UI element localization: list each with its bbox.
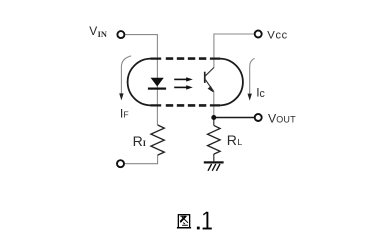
- resistor R1 zigzag: [151, 125, 164, 155]
- LED D1 triangle (anode): [151, 78, 164, 87]
- wire node to RL top: [213, 118, 215, 126]
- ground symbol bar: [204, 161, 224, 163]
- svg-text:RL: RL: [227, 132, 243, 148]
- caption dot: [197, 227, 200, 230]
- 图 inner winter component strokes: [180, 216, 188, 225]
- terminal VOUT circle: [255, 114, 262, 121]
- caption digit 1: [206, 212, 208, 228]
- optocoupler package outline bottom dashed edge: [166, 104, 207, 107]
- current arrow IF: [119, 56, 131, 101]
- 图 outer box bottom bar: [177, 227, 191, 229]
- terminal VCC circle: [255, 31, 262, 38]
- optocoupler package outline solid shoulder segments: [151, 59, 221, 106]
- wire output node to VOUT terminal: [216, 117, 254, 119]
- wire emitter down to output node: [213, 92, 215, 118]
- light arrow upper: [174, 77, 193, 81]
- optocoupler package outline top dashed edge: [166, 57, 207, 60]
- resistor RL zigzag: [208, 125, 221, 154]
- svg-text:VIN: VIN: [89, 24, 107, 39]
- wire collector to VCC: [214, 34, 254, 68]
- ground symbol hatch strokes: [208, 164, 220, 171]
- light arrow lower: [174, 85, 193, 89]
- caption figure number 图.1: [177, 212, 212, 230]
- phototransistor Q1 base bar: [204, 72, 206, 83]
- svg-text:RI: RI: [133, 133, 146, 149]
- current arrow IC: [248, 58, 255, 100]
- terminal VIN circle: [117, 31, 124, 38]
- svg-text:Ic: Ic: [256, 86, 265, 100]
- wire bottom-left return from R1 bottom to terminal: [124, 155, 157, 164]
- wire RL bottom to ground: [213, 154, 215, 161]
- svg-text:Vcc: Vcc: [267, 30, 288, 42]
- junction node dot: [211, 115, 216, 120]
- svg-text:IF: IF: [120, 106, 129, 120]
- terminal bottom-left circle: [117, 160, 124, 167]
- optocoupler package outline (stadium, solid end arcs): [128, 59, 243, 106]
- phototransistor Q1 collector lead: [205, 68, 214, 76]
- wire VIN input from terminal to LED anode column: [125, 35, 157, 125]
- phototransistor Q1 emitter arrow: [208, 86, 214, 92]
- svg-text:VOUT: VOUT: [268, 111, 296, 125]
- LED D1 cathode bar: [148, 88, 166, 90]
- 图 outer box: [178, 215, 189, 228]
- phototransistor Q1 emitter lead: [205, 80, 213, 92]
